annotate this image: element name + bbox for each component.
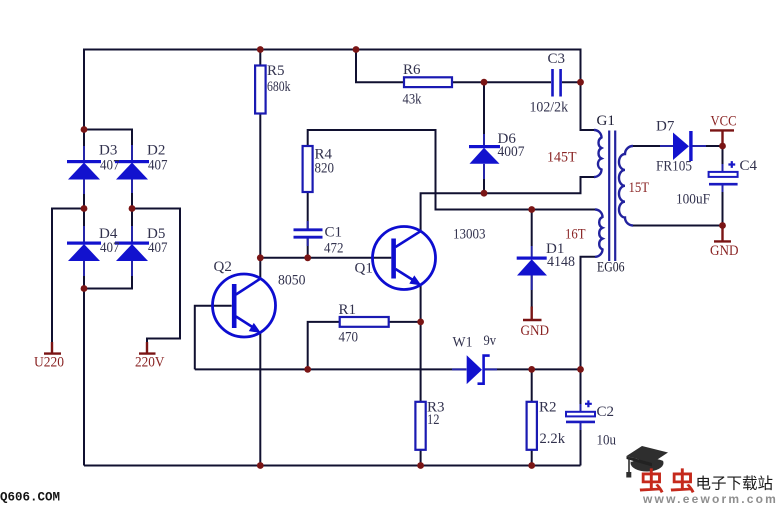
svg-text:407: 407 [100,158,120,174]
svg-text:D3: D3 [99,143,117,159]
wire bridge top jog to D2 [84,130,132,162]
pin D7 cathode [693,145,707,147]
pin D4 cathode [83,226,85,242]
svg-text:EG06: EG06 [597,260,625,276]
svg-text:407: 407 [148,240,168,256]
wire zener line left [195,368,467,370]
wire left drop to bridge top [83,49,85,130]
wire top rail [83,49,581,51]
wire Q2 base loop down to zener line [195,306,232,370]
pin D4 anode [83,261,85,276]
svg-text:GND: GND [521,323,550,339]
wire D4 anode to bridge bottom node [83,261,85,289]
wire mid-left node to U220 [52,209,84,343]
node R1 left [304,366,311,373]
node D6 anode [481,190,488,197]
transformer G1 core [609,131,615,262]
diode D6 [469,145,500,164]
node D6 cathode [481,79,488,86]
svg-text:43k: 43k [403,92,422,108]
node C1 bottom [304,254,311,261]
wire 15T top to D7 [633,145,660,147]
node rail R3 [417,462,424,469]
diode D3 [67,160,101,180]
wire R5 top lead [259,49,261,66]
pin D2 cathode [131,145,133,161]
wire 15T bottom to ground node [633,225,723,227]
node D1 cathode [528,206,535,213]
zener W1 [467,355,490,384]
svg-text:820: 820 [315,161,335,177]
node C3 right [577,79,584,86]
wire D3 anode to mid-left node [83,180,85,209]
wire C3 to right column [562,81,581,83]
wire R2 bottom lead [531,450,533,466]
svg-text:407: 407 [100,240,120,256]
wire primary bottom to D6 anode line and Q1 collector [421,177,594,231]
pin D1 cathode [531,246,533,257]
pin D5 anode [131,261,133,276]
svg-text:407: 407 [148,158,168,174]
svg-text:8050: 8050 [278,273,306,289]
svg-text:电子下载站: 电子下载站 [696,475,774,493]
wire bridge bottom to bottom rail [83,289,85,466]
wire bottom rail [84,465,581,467]
wire C1 bottom to Q1 base node [307,239,309,258]
svg-text:VCC: VCC [711,114,737,130]
svg-text:Q606.COM: Q606.COM [0,491,60,505]
pin C1 top [307,221,309,229]
diode D5 [115,242,149,262]
svg-text:R6: R6 [403,62,421,78]
svg-text:C2: C2 [597,404,615,420]
svg-text:220V: 220V [135,355,165,371]
wire Q1 emitter to rail through R3 [420,285,422,466]
svg-text:470: 470 [339,330,359,346]
node bridge bottom [81,285,88,292]
node R5 top rail [257,46,264,53]
diode D2 [115,160,149,180]
pin D1 anode [531,276,533,291]
node rail R2 [528,462,535,469]
node bridge mid left [81,205,88,212]
wire top rail drop to R6 [356,49,404,83]
wire D6 anode to node line [483,164,485,193]
transistor Q1 [373,227,436,290]
svg-text:C1: C1 [325,225,343,241]
node R2 top [528,366,535,373]
wire D1 top lead [531,210,533,247]
node Q2 collector [257,254,264,261]
svg-text:145T: 145T [547,150,577,166]
resistor R5 [255,66,266,114]
svg-text:15T: 15T [629,180,650,196]
wire R6 to C3 [452,81,551,83]
wire 16T bottom to C2 top [581,257,596,412]
svg-text:W1: W1 [453,335,473,351]
wire C4 bottom to ground node [722,185,724,226]
svg-text:2.2k: 2.2k [540,431,566,447]
wire right column top to C3 node [580,49,582,83]
svg-text:C4: C4 [740,158,758,174]
ground 220V [139,342,156,354]
diode D4 [67,242,101,262]
wire bridge top node to D3 [83,130,85,162]
pin D3 anode [83,179,85,194]
wire Q1 base [260,257,391,259]
transistor Q2 [213,274,276,337]
wire mid-right node to D5 [131,209,133,243]
pin C2 top [580,404,582,412]
svg-text:10u: 10u [597,433,617,449]
svg-text:U220: U220 [34,355,64,371]
wire Q2 emitter to bottom rail [259,332,261,465]
ground U220 [44,342,61,354]
wire C3 node down to primary top [581,82,595,130]
svg-text:12: 12 [427,412,440,428]
svg-text:C3: C3 [548,51,566,67]
wire R1 left lead to node [308,322,340,370]
svg-text:16T: 16T [565,227,586,243]
transformer secondary winding 15T [619,146,633,226]
wire D7 to VCC node [693,145,723,147]
wire R4 bottom to C1 [307,192,309,229]
svg-text:4007: 4007 [498,144,525,160]
pin D5 cathode [131,226,133,242]
resistor R1 [340,317,389,327]
wire D2 anode to mid-right node [131,180,133,209]
svg-text:G1: G1 [597,113,615,129]
node C4 bottom [719,222,726,229]
svg-text:D2: D2 [147,143,165,159]
node R6 top rail [353,46,360,53]
wire R4 top loop to 16T top line [308,130,595,210]
resistor R6 [404,77,452,87]
svg-text:FR105: FR105 [656,159,692,175]
wire D5 anode to bridge bottom jog [84,261,132,289]
resistor R3 [415,402,425,450]
pin W1 cathode [485,368,498,370]
power VCC symbol [710,130,734,146]
pin C4 bottom [722,185,724,193]
svg-text:R2: R2 [539,400,557,416]
capacitor C2 [566,400,595,422]
node C2 top [577,366,584,373]
wire R1 right lead to Q1 emitter [389,321,421,323]
svg-text:GND: GND [710,243,739,259]
svg-text:102/2k: 102/2k [530,100,569,116]
pin D7 anode [660,145,673,147]
svg-text:www.eeworm.com: www.eeworm.com [642,492,777,505]
capacitor C4 [709,161,738,184]
svg-text:4148: 4148 [547,254,575,270]
svg-text:100uF: 100uF [676,192,710,208]
wire VCC node to C4 [722,146,724,172]
svg-text:9v: 9v [484,333,497,349]
pin D3 cathode [83,146,85,161]
diode D7 [673,131,693,161]
resistor R4 [303,146,313,192]
pin C4 top [722,164,724,172]
pin D6 anode [483,164,485,179]
wire R5 bottom to Q2 collector node [259,114,261,258]
capacitor C1 [294,230,323,237]
svg-text:472: 472 [324,241,344,257]
ground GND under D1 [523,307,542,321]
wire mid-left node to D4 [83,209,85,243]
svg-text:Q1: Q1 [355,261,373,277]
node bridge mid right [129,205,136,212]
pin D2 anode [131,179,133,193]
node VCC [719,143,726,150]
ground GND under C4 [714,226,731,242]
pin W1 anode [452,368,467,370]
diode D1 [517,257,547,276]
wire D6 cathode node on R6-C3 line [483,82,485,134]
pin D6 cathode [483,134,485,145]
wire mid-right node to 220V [132,209,180,343]
node bridge top [81,126,88,133]
node rail Q2 emitter [257,462,264,469]
wire zener line right [485,368,581,370]
wire D1 bottom to ground stub [531,276,533,308]
transformer winding 16T [595,210,603,257]
svg-text:R5: R5 [267,63,285,79]
wire Q2 collector [259,258,261,279]
svg-text:680k: 680k [267,79,291,95]
transformer primary winding 145T [594,130,602,177]
node R1 right [417,319,424,326]
wire C2 bottom to rail [580,423,582,466]
svg-text:R1: R1 [339,302,357,318]
pin C2 bottom [580,422,582,430]
pin C1 bottom [307,238,309,246]
svg-text:13003: 13003 [453,227,486,243]
logo graduation cap [626,446,668,478]
svg-text:Q2: Q2 [214,259,232,275]
capacitor C3 [553,69,561,97]
svg-text:D7: D7 [656,119,675,135]
resistor R2 [527,402,537,450]
wire R2 top lead [531,369,533,402]
